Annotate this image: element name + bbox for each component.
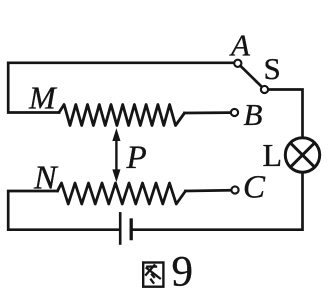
label C	[243, 170, 266, 206]
rheostat N (bottom zigzag element)	[58, 183, 186, 204]
svg-text:B: B	[244, 97, 263, 132]
lamp L (circle with X)	[285, 138, 319, 172]
slider P double-headed arrow	[113, 130, 120, 181]
wire rheostat M to terminal B	[185, 111, 231, 114]
caption character 图 (drawn)	[143, 263, 163, 287]
battery long plate (positive)	[119, 213, 122, 243]
svg-text:S: S	[264, 51, 281, 86]
caption digit 9	[172, 248, 194, 290]
label N	[33, 160, 59, 197]
svg-text:P: P	[126, 140, 147, 176]
label L	[263, 137, 283, 173]
svg-text:N: N	[33, 160, 59, 197]
svg-text:9: 9	[172, 248, 194, 290]
terminal B (open circle)	[231, 109, 238, 116]
svg-text:M: M	[28, 80, 58, 116]
wire rheostat N to terminal C	[186, 189, 231, 192]
label S	[264, 51, 281, 86]
terminal A (open circle)	[234, 60, 241, 67]
svg-text:A: A	[229, 28, 251, 63]
battery short plate (negative)	[130, 220, 133, 239]
label A	[229, 28, 251, 63]
svg-text:C: C	[243, 170, 266, 206]
wire top-left loop (M lead, left riser, top rail to A)	[8, 63, 234, 113]
svg-text:L: L	[263, 137, 283, 173]
label B	[244, 97, 263, 132]
switch S blade	[240, 66, 262, 87]
wire battery to bottom-right corner and riser to lamp	[133, 172, 303, 229]
terminal C (open circle)	[231, 186, 238, 193]
wire S to top-right corner	[268, 90, 302, 138]
label P	[126, 140, 147, 176]
switch S pivot (open circle)	[261, 86, 268, 93]
wire bottom-left loop (N lead, left riser, bottom rail to battery)	[8, 191, 119, 230]
rheostat M (top zigzag element)	[59, 105, 185, 126]
label M	[28, 80, 58, 116]
